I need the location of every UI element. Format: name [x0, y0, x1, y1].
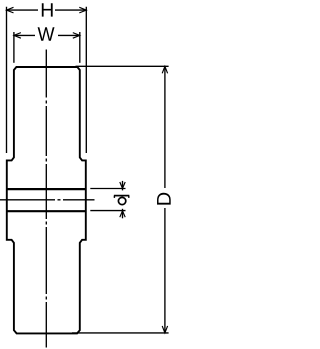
W arrow left — [14, 33, 21, 39]
d label — [114, 196, 129, 205]
D arrow top — [162, 66, 167, 73]
d arrow upper — [122, 181, 124, 191]
D arrow bottom — [162, 326, 167, 333]
H extension line right — [85, 7, 87, 153]
bore line lower — [7, 210, 86, 212]
vertical centerline — [45, 50, 47, 348]
W extension line right — [79, 32, 81, 63]
W extension line left — [13, 32, 15, 63]
D extension line top — [76, 65, 169, 67]
d arrow lower — [122, 209, 124, 219]
W dimension line — [14, 34, 35, 36]
d extension line upper — [90, 188, 125, 190]
H label — [42, 3, 53, 16]
H arrow right — [79, 7, 86, 13]
wheel body outline — [7, 67, 86, 333]
D dimension line — [164, 66, 166, 188]
d extension line lower — [90, 210, 125, 212]
horizontal centerline — [0, 199, 95, 201]
D label — [157, 193, 171, 205]
H arrow left — [7, 7, 14, 13]
bore line upper — [7, 188, 86, 190]
H extension line left — [6, 7, 8, 153]
W arrow right — [73, 33, 80, 39]
W label — [38, 27, 55, 40]
D extension line bottom — [72, 332, 169, 334]
H dimension line — [7, 9, 39, 11]
